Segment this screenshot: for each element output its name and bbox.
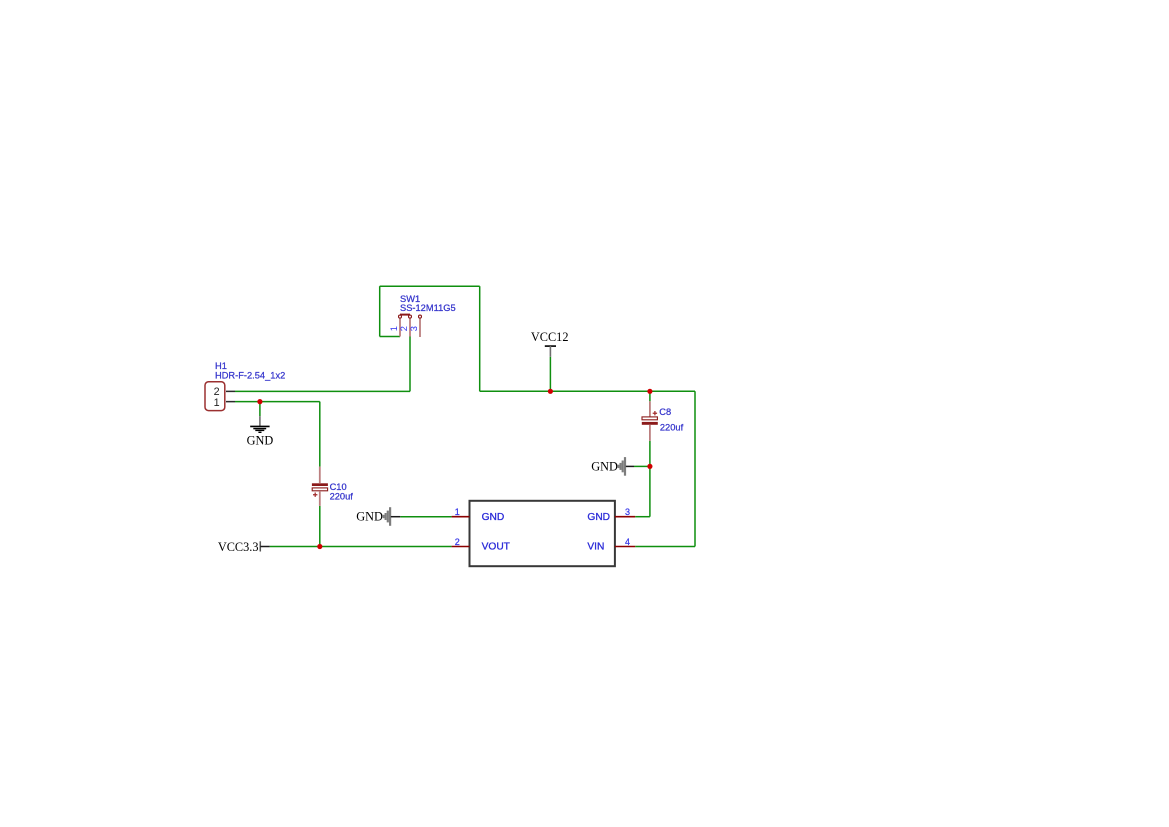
capacitor C8 bbox=[642, 401, 684, 441]
svg-text:1: 1 bbox=[389, 326, 399, 331]
svg-text:VCC3.3: VCC3.3 bbox=[218, 540, 259, 554]
IC U1 (regulator box) bbox=[452, 501, 636, 566]
wire GND flag to C8 junction bbox=[634, 465, 650, 467]
power VCC3.3 net label bbox=[218, 540, 270, 554]
wire switch loop right vertical bbox=[479, 286, 481, 391]
wire C10 to VCC3.3 bus bbox=[319, 506, 321, 547]
svg-text:C10: C10 bbox=[330, 482, 347, 492]
svg-text:1: 1 bbox=[455, 507, 460, 517]
wire switch pin2 down bbox=[409, 337, 411, 392]
svg-text:H1: H1 bbox=[215, 361, 227, 371]
svg-text:GND: GND bbox=[587, 512, 610, 523]
wire junction down to pin3 bbox=[649, 466, 651, 516]
wire pin4 up to bus bbox=[694, 391, 696, 546]
svg-text:GND: GND bbox=[247, 433, 274, 447]
svg-text:VIN: VIN bbox=[587, 542, 604, 553]
wire pin4 horizontal bbox=[635, 546, 695, 548]
ground GND (earth symbol under H1) bbox=[247, 416, 274, 447]
svg-text:VCC12: VCC12 bbox=[531, 330, 569, 344]
svg-text:GND: GND bbox=[482, 512, 505, 523]
wire switch loop top bbox=[380, 285, 480, 287]
wire C8 to GND junction bbox=[649, 441, 651, 467]
junction C10 / VCC3.3 bus bbox=[317, 544, 322, 549]
svg-text:2: 2 bbox=[455, 537, 460, 547]
pin 3 stub bbox=[615, 516, 635, 518]
svg-text:2: 2 bbox=[399, 326, 409, 331]
power VCC12 bbox=[531, 330, 569, 357]
wire switch loop left vertical bbox=[379, 286, 381, 336]
ground GND flag at U1 pin1 bbox=[356, 507, 400, 526]
wire down to C10 bbox=[319, 402, 321, 467]
svg-text:VOUT: VOUT bbox=[482, 542, 510, 553]
wire bus to C8 bbox=[649, 391, 651, 401]
svg-text:C8: C8 bbox=[659, 407, 671, 417]
wire switch loop left horizontal bbox=[380, 336, 400, 338]
wire GND drop from H1 pin1 bbox=[259, 402, 261, 417]
switch SW1 bbox=[389, 294, 456, 337]
wire GND flag to pin1 bbox=[400, 516, 451, 518]
header H1 bbox=[205, 361, 285, 411]
svg-text:220uf: 220uf bbox=[330, 492, 354, 502]
wire pin3 horizontal bbox=[635, 516, 650, 518]
pin 1 stub bbox=[452, 516, 470, 518]
svg-text:HDR-F-2.54_1x2: HDR-F-2.54_1x2 bbox=[215, 371, 285, 381]
junction C8 / bus bbox=[647, 389, 652, 394]
pin 4 stub bbox=[615, 546, 635, 548]
svg-text:3: 3 bbox=[409, 326, 419, 331]
svg-text:GND: GND bbox=[356, 510, 383, 524]
wire H1 pin1 horizontal bbox=[235, 401, 320, 403]
wire H1 pin2 to switch bbox=[235, 390, 410, 392]
ground GND flag at C8 bottom bbox=[591, 457, 634, 476]
junction C8 / GND / pin3 bbox=[647, 464, 652, 469]
wire VCC12 drop bbox=[549, 357, 551, 392]
svg-text:GND: GND bbox=[591, 459, 618, 473]
pin 2 stub bbox=[452, 546, 470, 548]
wire main VCC12 bus bbox=[480, 390, 695, 392]
capacitor C10 bbox=[312, 467, 353, 506]
junction H1 pin1 / GND bbox=[257, 399, 262, 404]
svg-text:1: 1 bbox=[214, 397, 220, 409]
wire VCC3.3 to pin2 bbox=[270, 546, 452, 548]
junction VCC12 / bus bbox=[548, 389, 553, 394]
svg-text:SS-12M11G5: SS-12M11G5 bbox=[400, 303, 456, 313]
svg-text:3: 3 bbox=[625, 507, 630, 517]
svg-text:220uf: 220uf bbox=[660, 423, 684, 433]
svg-text:4: 4 bbox=[625, 537, 630, 547]
